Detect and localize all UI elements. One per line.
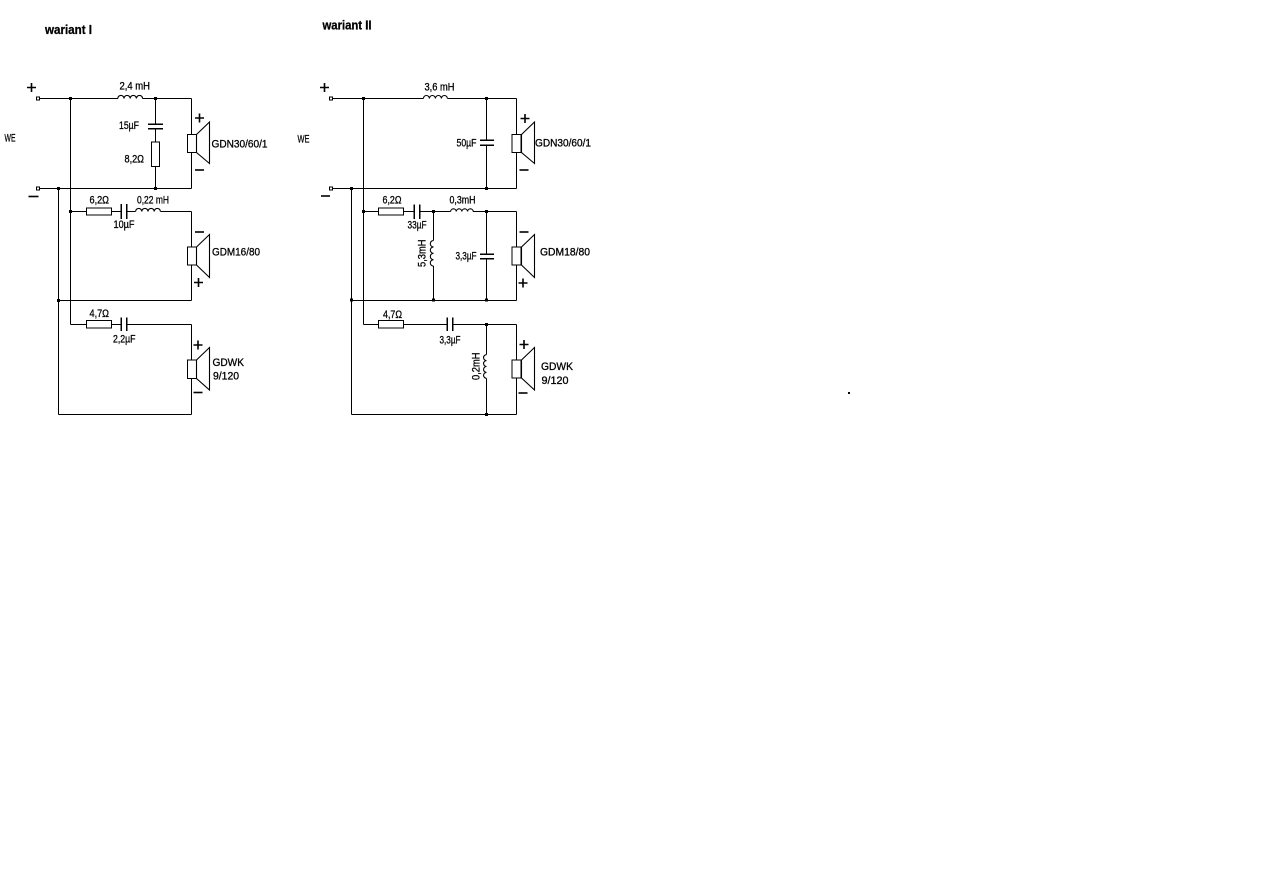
wire mid section right V1 <box>160 211 191 213</box>
svg-text:9/120: 9/120 <box>213 371 239 383</box>
capacitor C1 50µF V2 <box>480 140 494 145</box>
node filter branch top V1 <box>154 97 157 100</box>
wire top V1 left <box>40 98 118 100</box>
svg-text:6,2Ω: 6,2Ω <box>90 195 110 207</box>
svg-text:50µF: 50µF <box>457 138 477 150</box>
svg-text:9/120: 9/120 <box>542 375 569 387</box>
plus sign speaker3 V1 <box>194 341 203 350</box>
svg-text:33µF: 33µF <box>408 220 427 232</box>
inductor L1 2,4 mH V1 <box>118 95 143 98</box>
node coil branch bottom V2 <box>432 299 435 302</box>
node coil2 branch top V2 <box>485 323 488 326</box>
wire mid bottom V2 <box>352 300 517 302</box>
minus sign speaker2 V2 <box>520 231 529 233</box>
inductor L3 5,3mH V2 <box>430 241 433 267</box>
wire right vertical top section V1 <box>191 99 193 189</box>
svg-text:wariant II: wariant II <box>322 18 372 33</box>
wire cap to node V2 mid <box>420 211 451 213</box>
node shunt cap branch top V2 <box>485 210 488 213</box>
speaker GDM16/80 V1 <box>188 235 210 278</box>
svg-text:3,6 mH: 3,6 mH <box>425 82 455 94</box>
capacitor C2 33µF V2 <box>414 205 420 220</box>
capacitor C1 15µF V1 <box>148 124 163 129</box>
svg-text:15µF: 15µF <box>119 120 139 132</box>
plus sign speaker2 V1 <box>194 278 203 287</box>
wire top V1 right <box>143 98 192 100</box>
svg-text:GDM18/80: GDM18/80 <box>540 247 590 259</box>
wire low section right V1 <box>127 324 192 326</box>
minus sign speaker3 V1 <box>194 392 203 394</box>
node bus plus / top wire V1 <box>69 97 72 100</box>
svg-text:0,22 mH: 0,22 mH <box>137 195 169 207</box>
terminal - input V1 <box>37 187 40 190</box>
svg-text:10µF: 10µF <box>114 219 135 231</box>
svg-text:3,3µF: 3,3µF <box>440 335 461 347</box>
capacitor C3 2,2µF V1 <box>121 318 127 332</box>
svg-text:4,7Ω: 4,7Ω <box>90 308 110 320</box>
wire top V2 right <box>447 98 516 100</box>
node coil branch top V2 <box>432 210 435 213</box>
wire resistor to minus wire V1 <box>155 167 157 189</box>
minus sign input V1 <box>29 196 39 198</box>
speaker GDN30/60/1 V1 <box>188 122 210 164</box>
svg-text:wariant I: wariant I <box>44 22 92 37</box>
inductor L2 0,22 mH V1 <box>136 208 161 211</box>
wire shunt cap lower lead V2 mid <box>486 259 488 301</box>
speaker GDWK 9/120 V1 <box>188 348 210 391</box>
svg-text:5,3mH: 5,3mH <box>417 239 429 267</box>
resistor R1 8,2Ω V1 <box>152 142 160 167</box>
wire bottom V2 <box>352 414 517 416</box>
resistor R2 6,2Ω V1 <box>87 208 112 215</box>
stray dot <box>848 392 850 394</box>
wire bus plus V1 <box>70 99 72 325</box>
svg-text:GDN30/60/1: GDN30/60/1 <box>212 139 268 151</box>
svg-text:8,2Ω: 8,2Ω <box>125 154 145 166</box>
inductor L1 3,6 mH V2 <box>423 96 447 99</box>
speaker GDWK 9/120 V2 <box>512 348 535 391</box>
wire mid bottom V1 <box>59 300 192 302</box>
wire right vertical mid section V1 <box>191 212 193 301</box>
capacitor C3 3,3µF V2 mid <box>480 254 494 259</box>
wire bus minus V2 <box>351 189 353 415</box>
wire cap to inductor V1 mid <box>127 211 136 213</box>
inductor L4 0,2mH V2 <box>484 355 487 379</box>
wire resistor to cap V2 low <box>404 324 448 326</box>
svg-text:WE: WE <box>5 133 16 145</box>
resistor R3 4,7Ω V1 <box>87 321 112 329</box>
node bus minus / minus wire V2 <box>350 187 353 190</box>
wire minus V2 <box>333 188 517 190</box>
wire coil2 branch lower lead V2 <box>486 378 488 414</box>
plus sign input V2 <box>320 83 329 92</box>
node bus minus / minus wire V1 <box>57 187 60 190</box>
svg-text:GDWK: GDWK <box>541 361 574 373</box>
wire cap branch lower lead V2 <box>486 145 488 188</box>
wire coil branch lower lead V2 <box>433 266 435 300</box>
wire minus V1 <box>40 188 192 190</box>
terminal + input V1 <box>37 97 40 100</box>
node filter branch bottom V1 <box>154 187 157 190</box>
terminal - input V2 <box>330 187 333 190</box>
svg-text:6,2Ω: 6,2Ω <box>383 195 402 207</box>
wire mid section left V2 <box>364 211 379 213</box>
wire branch cap lead V1 <box>155 99 157 124</box>
inductor L2 0,3mH V2 <box>451 209 474 212</box>
minus sign speaker2 V1 <box>195 231 204 233</box>
minus sign input V2 <box>321 195 330 197</box>
node bus plus / top wire V2 <box>362 97 365 100</box>
plus sign speaker2 V2 <box>519 279 528 288</box>
node coil2 branch bottom V2 <box>485 413 488 416</box>
svg-text:GDM16/80: GDM16/80 <box>212 247 260 259</box>
plus sign input V1 <box>27 83 36 92</box>
wire mid section right V2 <box>473 211 516 213</box>
wire shunt cap upper lead V2 mid <box>486 212 488 255</box>
svg-text:3,3µF: 3,3µF <box>456 251 477 263</box>
minus sign speaker1 V2 <box>520 169 529 171</box>
svg-text:GDN30/60/1: GDN30/60/1 <box>535 138 591 150</box>
wire right vertical low section V2 <box>516 325 518 415</box>
minus sign speaker1 V1 <box>195 169 204 171</box>
wire bus plus V2 <box>363 99 365 325</box>
capacitor C4 3,3µF V2 low <box>447 318 453 332</box>
wire right vertical top section V2 <box>516 99 518 189</box>
plus sign speaker1 V1 <box>195 114 204 123</box>
wire mid section left V1 <box>71 211 87 213</box>
wire top V2 left <box>333 98 424 100</box>
svg-text:GDWK: GDWK <box>213 357 245 369</box>
node bus plus / mid wire V2 <box>362 210 365 213</box>
speaker GDN30/60/1 V2 <box>512 122 535 164</box>
wire resistor to cap V2 mid <box>404 211 415 213</box>
node cap branch top V2 <box>485 97 488 100</box>
svg-text:2,4 mH: 2,4 mH <box>120 81 151 93</box>
wire bottom V1 <box>59 414 192 416</box>
svg-text:WE: WE <box>298 134 310 146</box>
wire cap to resistor V1 <box>155 129 157 143</box>
node shunt cap branch bottom V2 <box>485 299 488 302</box>
speaker GDM18/80 V2 <box>512 235 535 278</box>
wire coil2 branch upper lead V2 <box>486 325 488 355</box>
svg-text:0,2mH: 0,2mH <box>471 352 483 380</box>
node bus minus / mid bottom wire V2 <box>350 299 353 302</box>
plus sign speaker1 V2 <box>521 114 530 123</box>
wire coil branch upper lead V2 <box>433 212 435 241</box>
minus sign speaker3 V2 <box>519 392 528 394</box>
wire cap branch upper lead V2 <box>486 99 488 141</box>
node bus plus / mid wire V1 <box>69 210 72 213</box>
svg-text:4,7Ω: 4,7Ω <box>383 309 402 321</box>
plus sign speaker3 V2 <box>520 340 529 349</box>
node bus minus / mid bottom wire V1 <box>57 299 60 302</box>
wire right vertical mid section V2 <box>516 212 518 301</box>
wire bus minus V1 <box>58 189 60 415</box>
svg-text:2,2µF: 2,2µF <box>113 334 136 346</box>
resistor R2 4,7Ω V2 <box>379 321 404 329</box>
node cap branch bottom V2 <box>485 187 488 190</box>
svg-text:0,3mH: 0,3mH <box>450 195 476 207</box>
wire low section left V2 <box>364 324 379 326</box>
resistor R1 6,2Ω V2 <box>379 208 404 215</box>
wire right vertical low section V1 <box>191 325 193 415</box>
capacitor C2 10µF V1 <box>121 204 127 219</box>
wire resistor to cap V1 mid <box>112 211 122 213</box>
wire cap to right V2 low <box>453 324 517 326</box>
terminal + input V2 <box>330 97 333 100</box>
wire low section left V1 <box>71 324 87 326</box>
wire resistor to cap V1 low <box>112 324 122 326</box>
